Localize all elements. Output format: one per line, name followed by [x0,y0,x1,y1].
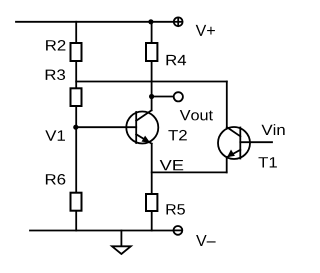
resistor R2 [71,43,82,61]
label R3 [46,69,65,80]
label V1 [45,130,65,140]
terminal V+ [174,17,183,26]
transistor T2 [126,110,158,143]
label VE [160,160,184,170]
resistor R3 [71,88,82,106]
wire T1 base to Vin [240,141,272,143]
label R2 [46,40,65,51]
node V+ junction [148,19,153,24]
wire mid vertical (V+ through R4 to Vout node and T2 collector) [151,22,153,111]
wire mid horizontal (R2/R3 node to T1 collector) [76,81,227,83]
label V+ [196,25,215,36]
wire T2 emitter vertical (through VE node and R5 to bottom rail) [151,144,153,231]
resistor R6 [71,193,82,211]
ground [120,231,122,247]
wire VE horizontal [152,171,227,173]
label T2 [168,130,186,141]
label R6 [46,174,65,185]
label R4 [167,55,187,65]
terminal V- [174,226,183,235]
wire Vout stub [152,96,174,98]
resistor R4 [146,43,157,61]
wire bottom rail [30,230,173,232]
node V1 junction [73,125,78,130]
label Vout [180,110,213,120]
label T1 [259,157,277,167]
wire T1 emitter vertical [226,157,228,172]
wire T1 collector vertical [226,82,228,128]
label V- [196,235,216,246]
label R5 [167,204,185,214]
transistor T1 [218,127,250,159]
terminal Vout [174,92,183,101]
node Vout junction [149,94,154,99]
wire top rail V+ [16,21,173,23]
wire left vertical (V+ to ground rail through R2,R3,R6) [75,22,77,231]
resistor R5 [146,194,157,211]
label Vin [262,124,285,135]
wire V1 to T2 base [76,126,136,128]
